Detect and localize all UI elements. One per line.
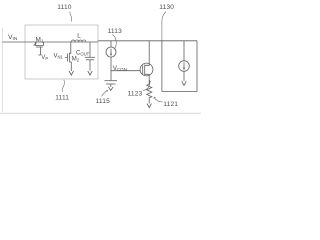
svg-text:VP: VP: [41, 55, 48, 61]
leader for 1111: [62, 80, 64, 92]
svg-text:VN1: VN1: [54, 54, 64, 60]
page edge line bottom: [0, 112, 201, 114]
svg-text:1123: 1123: [128, 90, 143, 97]
wire: VCON node: [110, 57, 112, 80]
leader for 1123: [143, 81, 150, 91]
transistor M1 (high-side switch): [34, 42, 44, 55]
dashed box 1110 (power stage block): [25, 25, 98, 79]
svg-text:1121: 1121: [163, 101, 178, 108]
ground (resistor arrow): [147, 104, 151, 108]
transistor 1123: [140, 41, 153, 84]
resistor 1121: [147, 84, 152, 104]
leader for 1130: [162, 12, 166, 41]
svg-text:COUT: COUT: [76, 50, 90, 56]
svg-text:L: L: [77, 33, 81, 40]
wire: output rail (right, y=40.8): [98, 40, 197, 42]
current source 1113: [106, 41, 116, 57]
svg-text:1111: 1111: [55, 95, 69, 102]
leader for 1121: [154, 97, 163, 102]
svg-text:M1: M1: [36, 37, 44, 44]
ground (M2 source arrow): [69, 71, 73, 75]
svg-text:1113: 1113: [108, 28, 122, 35]
capacitor COUT: [85, 42, 95, 71]
ground (load arrow): [182, 81, 186, 85]
inductor L: [71, 40, 86, 42]
svg-text:M2: M2: [72, 57, 80, 63]
ground (cap 1115 arrow): [108, 87, 113, 91]
leader for 1110: [70, 12, 72, 22]
leader for 1115: [102, 90, 108, 96]
arrowhead on M1 source: [35, 43, 37, 45]
capacitor 1115: [105, 81, 118, 87]
current source (load): [179, 41, 190, 81]
ground (COUT arrow): [88, 71, 92, 75]
page edge line left: [1, 28, 3, 112]
transistor M2 (low-side switch): [68, 42, 72, 71]
box 1130 (load block): [162, 41, 197, 92]
svg-text:1110: 1110: [57, 4, 71, 11]
svg-text:1130: 1130: [159, 4, 174, 11]
leader for 1113: [112, 35, 116, 50]
wire: VN1 gate lead: [65, 57, 68, 59]
wire: VCON to gate of 1123: [111, 70, 140, 72]
svg-text:1115: 1115: [96, 98, 110, 105]
wire: VIN rail (left, y=42): [3, 41, 99, 43]
